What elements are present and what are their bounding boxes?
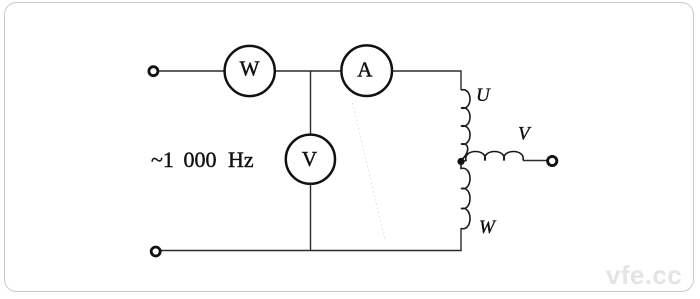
inductor U (phase U winding) (461, 90, 470, 161)
wire top tap to voltmeter (310, 71, 312, 135)
terminal T2 (right output) (548, 156, 557, 165)
ammeter A (341, 45, 392, 96)
terminal T3 (bottom-left) (151, 247, 160, 256)
inductor W (phase W winding) (461, 163, 470, 229)
svg-text:vfe.cc: vfe.cc (606, 260, 682, 290)
svg-text:U: U (476, 85, 491, 106)
wire voltmeter to bottom return (310, 184, 312, 251)
wire ammeter to right corner down to inductor U (393, 71, 461, 90)
svg-text:~1000Hz: ~1000Hz (151, 147, 254, 172)
svg-text:A: A (357, 58, 373, 82)
terminal T1 (top-left input) (149, 67, 158, 76)
svg-text:W: W (240, 57, 260, 81)
wattmeter W (225, 46, 275, 96)
junction node (star point) (457, 158, 464, 165)
wire inductor W to bottom corner (161, 228, 461, 251)
svg-text:W: W (479, 217, 497, 238)
wire wattmeter to ammeter (276, 70, 341, 72)
svg-text:V: V (302, 147, 317, 171)
voltmeter V (286, 135, 335, 184)
wire T1 to wattmeter (159, 70, 225, 72)
wire inductor V to output terminal (523, 160, 547, 162)
inductor V (phase V winding, horizontal) (464, 152, 523, 162)
